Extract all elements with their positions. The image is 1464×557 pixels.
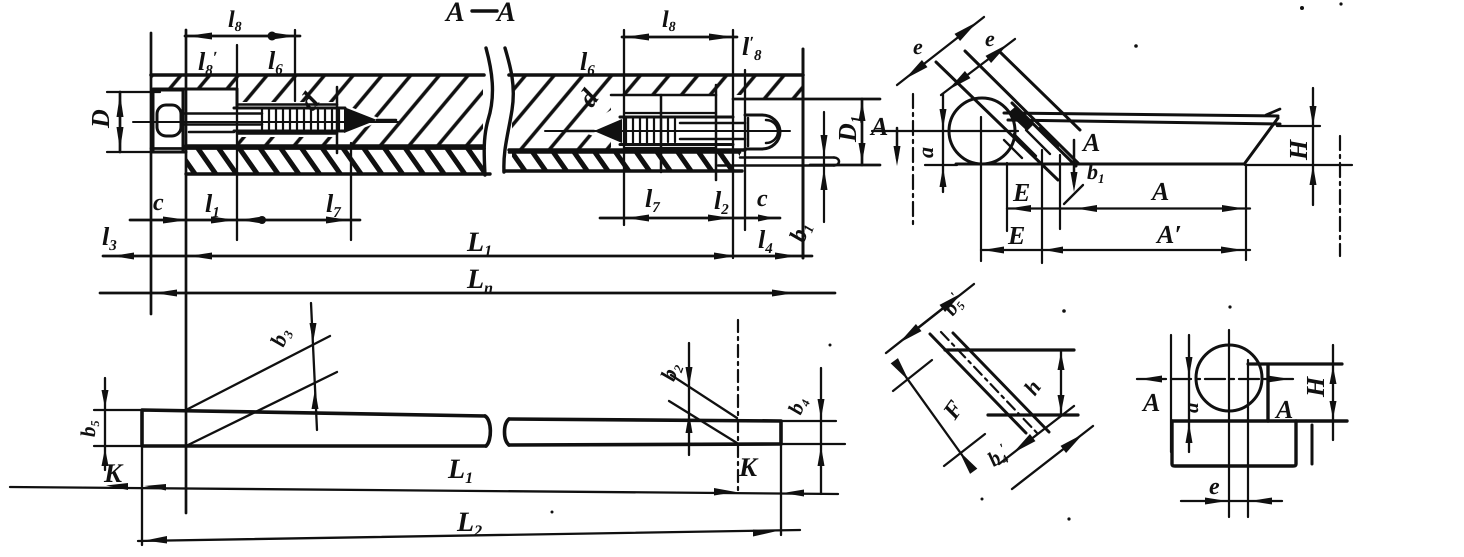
hatched upper block right	[512, 75, 803, 150]
white pocket around left screw tip	[340, 103, 384, 137]
dimension row E / A'	[981, 220, 1250, 254]
blade oblique line 1	[936, 62, 1058, 180]
strip top edge left	[151, 147, 484, 150]
label b1 with leader	[1064, 159, 1105, 204]
block top edge left	[151, 73, 484, 77]
white pocket around right screw tip	[578, 103, 622, 145]
block bottom line right	[509, 148, 745, 151]
hole end line right x716	[715, 85, 718, 180]
title dash	[472, 9, 497, 12]
svg-text:e: e	[1209, 474, 1220, 500]
dimension a (detail)	[1179, 335, 1203, 452]
svg-text:a: a	[913, 147, 938, 158]
dimension b3 tick	[265, 303, 319, 430]
break line right	[504, 48, 513, 172]
svg-text:D: D	[86, 109, 115, 129]
dimension l8 top right	[622, 7, 737, 41]
screw left hole walls	[237, 105, 337, 134]
strip top edge right	[509, 151, 740, 154]
blade left segment right cap	[485, 416, 490, 446]
dimension row L2	[138, 507, 800, 544]
right block face	[802, 49, 805, 258]
dimension row E / A	[1007, 177, 1250, 212]
blade right segment left cap	[505, 419, 510, 445]
dimension e tick 1	[897, 17, 984, 85]
junction dark patch	[1008, 107, 1034, 131]
bar top edge line 2	[1008, 120, 1280, 124]
svg-text:c: c	[757, 186, 768, 212]
dimension F	[891, 358, 985, 474]
screw left thread outer lines	[234, 108, 345, 131]
dimension b2 tick	[655, 343, 692, 455]
screw left cone tip	[344, 107, 377, 133]
dimension l8 top left	[185, 7, 300, 41]
svg-text:E: E	[1012, 178, 1030, 207]
dimension b2 leader 2	[669, 401, 737, 443]
dimension D1	[833, 99, 866, 165]
stray vertical	[1311, 425, 1314, 464]
screw left tip line	[377, 119, 396, 122]
svg-text:E: E	[1007, 221, 1025, 250]
body lower box	[1172, 421, 1296, 466]
dimension b3 leader 2	[186, 372, 337, 446]
break line left	[484, 48, 492, 175]
bar end bevel	[1245, 118, 1278, 163]
strip bottom edge left	[186, 172, 490, 175]
extension line x295	[294, 30, 296, 101]
dimension b4 prime ticks	[983, 406, 1093, 489]
hatched lower strip right	[512, 152, 740, 171]
svg-text:A: A	[495, 0, 516, 28]
tooth bottom line	[988, 413, 1078, 416]
head seat bottom line	[151, 151, 186, 154]
dimension row l7 l2 c (right)	[600, 215, 780, 222]
extension line x745	[744, 70, 746, 230]
svg-text:A: A	[1150, 177, 1169, 206]
section line A-A horizontal dash-dot	[1137, 376, 1293, 383]
extension x142 below blade	[141, 446, 143, 545]
dimension row K L1 K	[10, 454, 838, 497]
bar top edge line 1	[1004, 113, 1278, 116]
svg-text:A′: A′	[1155, 220, 1182, 249]
hatched upper block left	[151, 75, 483, 147]
dimension row c l1 l7 (left)	[130, 216, 360, 224]
extension line x624	[623, 30, 625, 225]
right bore top line and D1 top extension	[733, 98, 880, 101]
vertical centerline	[1228, 330, 1230, 517]
centerline dash-dot x913	[912, 94, 914, 225]
extension x781 below blade	[780, 444, 782, 535]
section arrow A (left)	[869, 112, 901, 166]
dimension h	[1018, 350, 1064, 415]
blade left segment outline	[142, 410, 486, 446]
svg-text:A: A	[1081, 128, 1100, 157]
dimension b5 (left thickness)	[76, 378, 140, 470]
screw right thread outer lines	[620, 117, 733, 145]
blade oblique line 4	[1012, 103, 1076, 166]
bar bottom edge	[956, 163, 1245, 166]
tooth top face line	[945, 348, 1074, 351]
svg-text:A: A	[869, 112, 888, 141]
svg-text:A: A	[1141, 388, 1160, 417]
dimension H (detail)	[1301, 345, 1337, 440]
extension line x237	[236, 45, 238, 240]
white hole pocket left	[237, 102, 347, 137]
bar end kick	[1266, 109, 1280, 115]
svg-text:H: H	[1284, 139, 1313, 161]
dimension D left	[86, 92, 165, 152]
dimension a (pictorial)	[913, 94, 957, 192]
dimension Ln row	[100, 264, 835, 297]
svg-text:a: a	[1179, 403, 1203, 414]
bore top line left	[153, 88, 237, 91]
screw right shank lines	[680, 123, 745, 139]
dimension L1 row	[103, 227, 812, 260]
vertical centerline of circle	[980, 117, 982, 261]
hole end line left x337	[336, 87, 339, 153]
blade edge 1	[930, 334, 1026, 433]
dash-dot extension x738	[737, 320, 739, 494]
svg-text:e: e	[985, 26, 995, 51]
extension line x733	[732, 30, 734, 258]
blade thin lines right	[718, 158, 834, 166]
thread hash left	[262, 108, 339, 131]
hole top boundary right	[611, 94, 716, 97]
screw left centerline	[133, 121, 398, 123]
extension vertical x1246	[1245, 165, 1247, 260]
bolt head right	[745, 115, 780, 149]
body top line	[1248, 362, 1342, 365]
blade right segment outline	[509, 419, 781, 445]
dimension b5 prime ticks	[886, 284, 974, 353]
hole circle	[1196, 345, 1262, 411]
body shoulder line	[1172, 419, 1347, 422]
svg-text:c: c	[153, 190, 164, 216]
extension vertical left	[1170, 335, 1172, 452]
scan speckles	[551, 2, 1343, 520]
svg-text:H: H	[1301, 376, 1330, 398]
block bottom line left	[186, 144, 484, 147]
blade rounded end	[834, 158, 839, 166]
svg-text:e: e	[913, 34, 923, 59]
screw right tip line	[566, 130, 594, 133]
dimension b4 (right thickness)	[781, 368, 845, 494]
dimension b3 leader 1	[186, 336, 330, 410]
vertical line e right	[1247, 360, 1249, 517]
body step vertical	[1266, 365, 1269, 421]
screw left shank lines	[183, 114, 262, 133]
screw right cone tip	[594, 119, 622, 143]
strip bottom edge right	[504, 169, 742, 172]
title A-A	[444, 0, 516, 28]
screw right centerline	[545, 130, 790, 132]
dimension b2 leader 1	[671, 375, 737, 418]
dimension H (pictorial right)	[1245, 88, 1352, 205]
svg-text:A: A	[444, 0, 465, 28]
blade oblique line 3	[1000, 52, 1080, 130]
thread end vertical x661	[660, 95, 663, 172]
seat face / extension line x186	[185, 30, 188, 513]
svg-text:K: K	[738, 452, 759, 482]
extension verticals E rows	[1007, 150, 1060, 263]
horizontal centerline through circle	[872, 130, 1018, 132]
blade oblique line 2	[965, 51, 1079, 164]
blade edge 2	[953, 333, 1049, 432]
extension line x351	[350, 143, 352, 240]
right bore bottom / D1 bottom extension	[810, 164, 880, 167]
block left face	[150, 33, 153, 314]
circle of hole	[949, 98, 1015, 164]
bore step vertical x237	[236, 89, 239, 106]
blade centerline dash-dot	[941, 332, 1038, 434]
dash-dot centerline right end	[1339, 136, 1341, 256]
white hole pocket right	[611, 95, 745, 150]
bolt head left	[153, 89, 183, 152]
svg-text:K: K	[103, 458, 124, 488]
dimension e tick 2	[941, 26, 1015, 95]
thread hash right	[626, 117, 675, 144]
hatched lower strip left	[186, 148, 486, 174]
dimension e (detail)	[1181, 474, 1282, 505]
dimension b1 (right edge)	[821, 112, 828, 222]
notch hatch strokes under circle	[1004, 128, 1058, 158]
block top edge right	[509, 73, 803, 77]
screw right hole walls	[625, 113, 716, 148]
section arrow A (right of circle)	[1071, 128, 1101, 192]
